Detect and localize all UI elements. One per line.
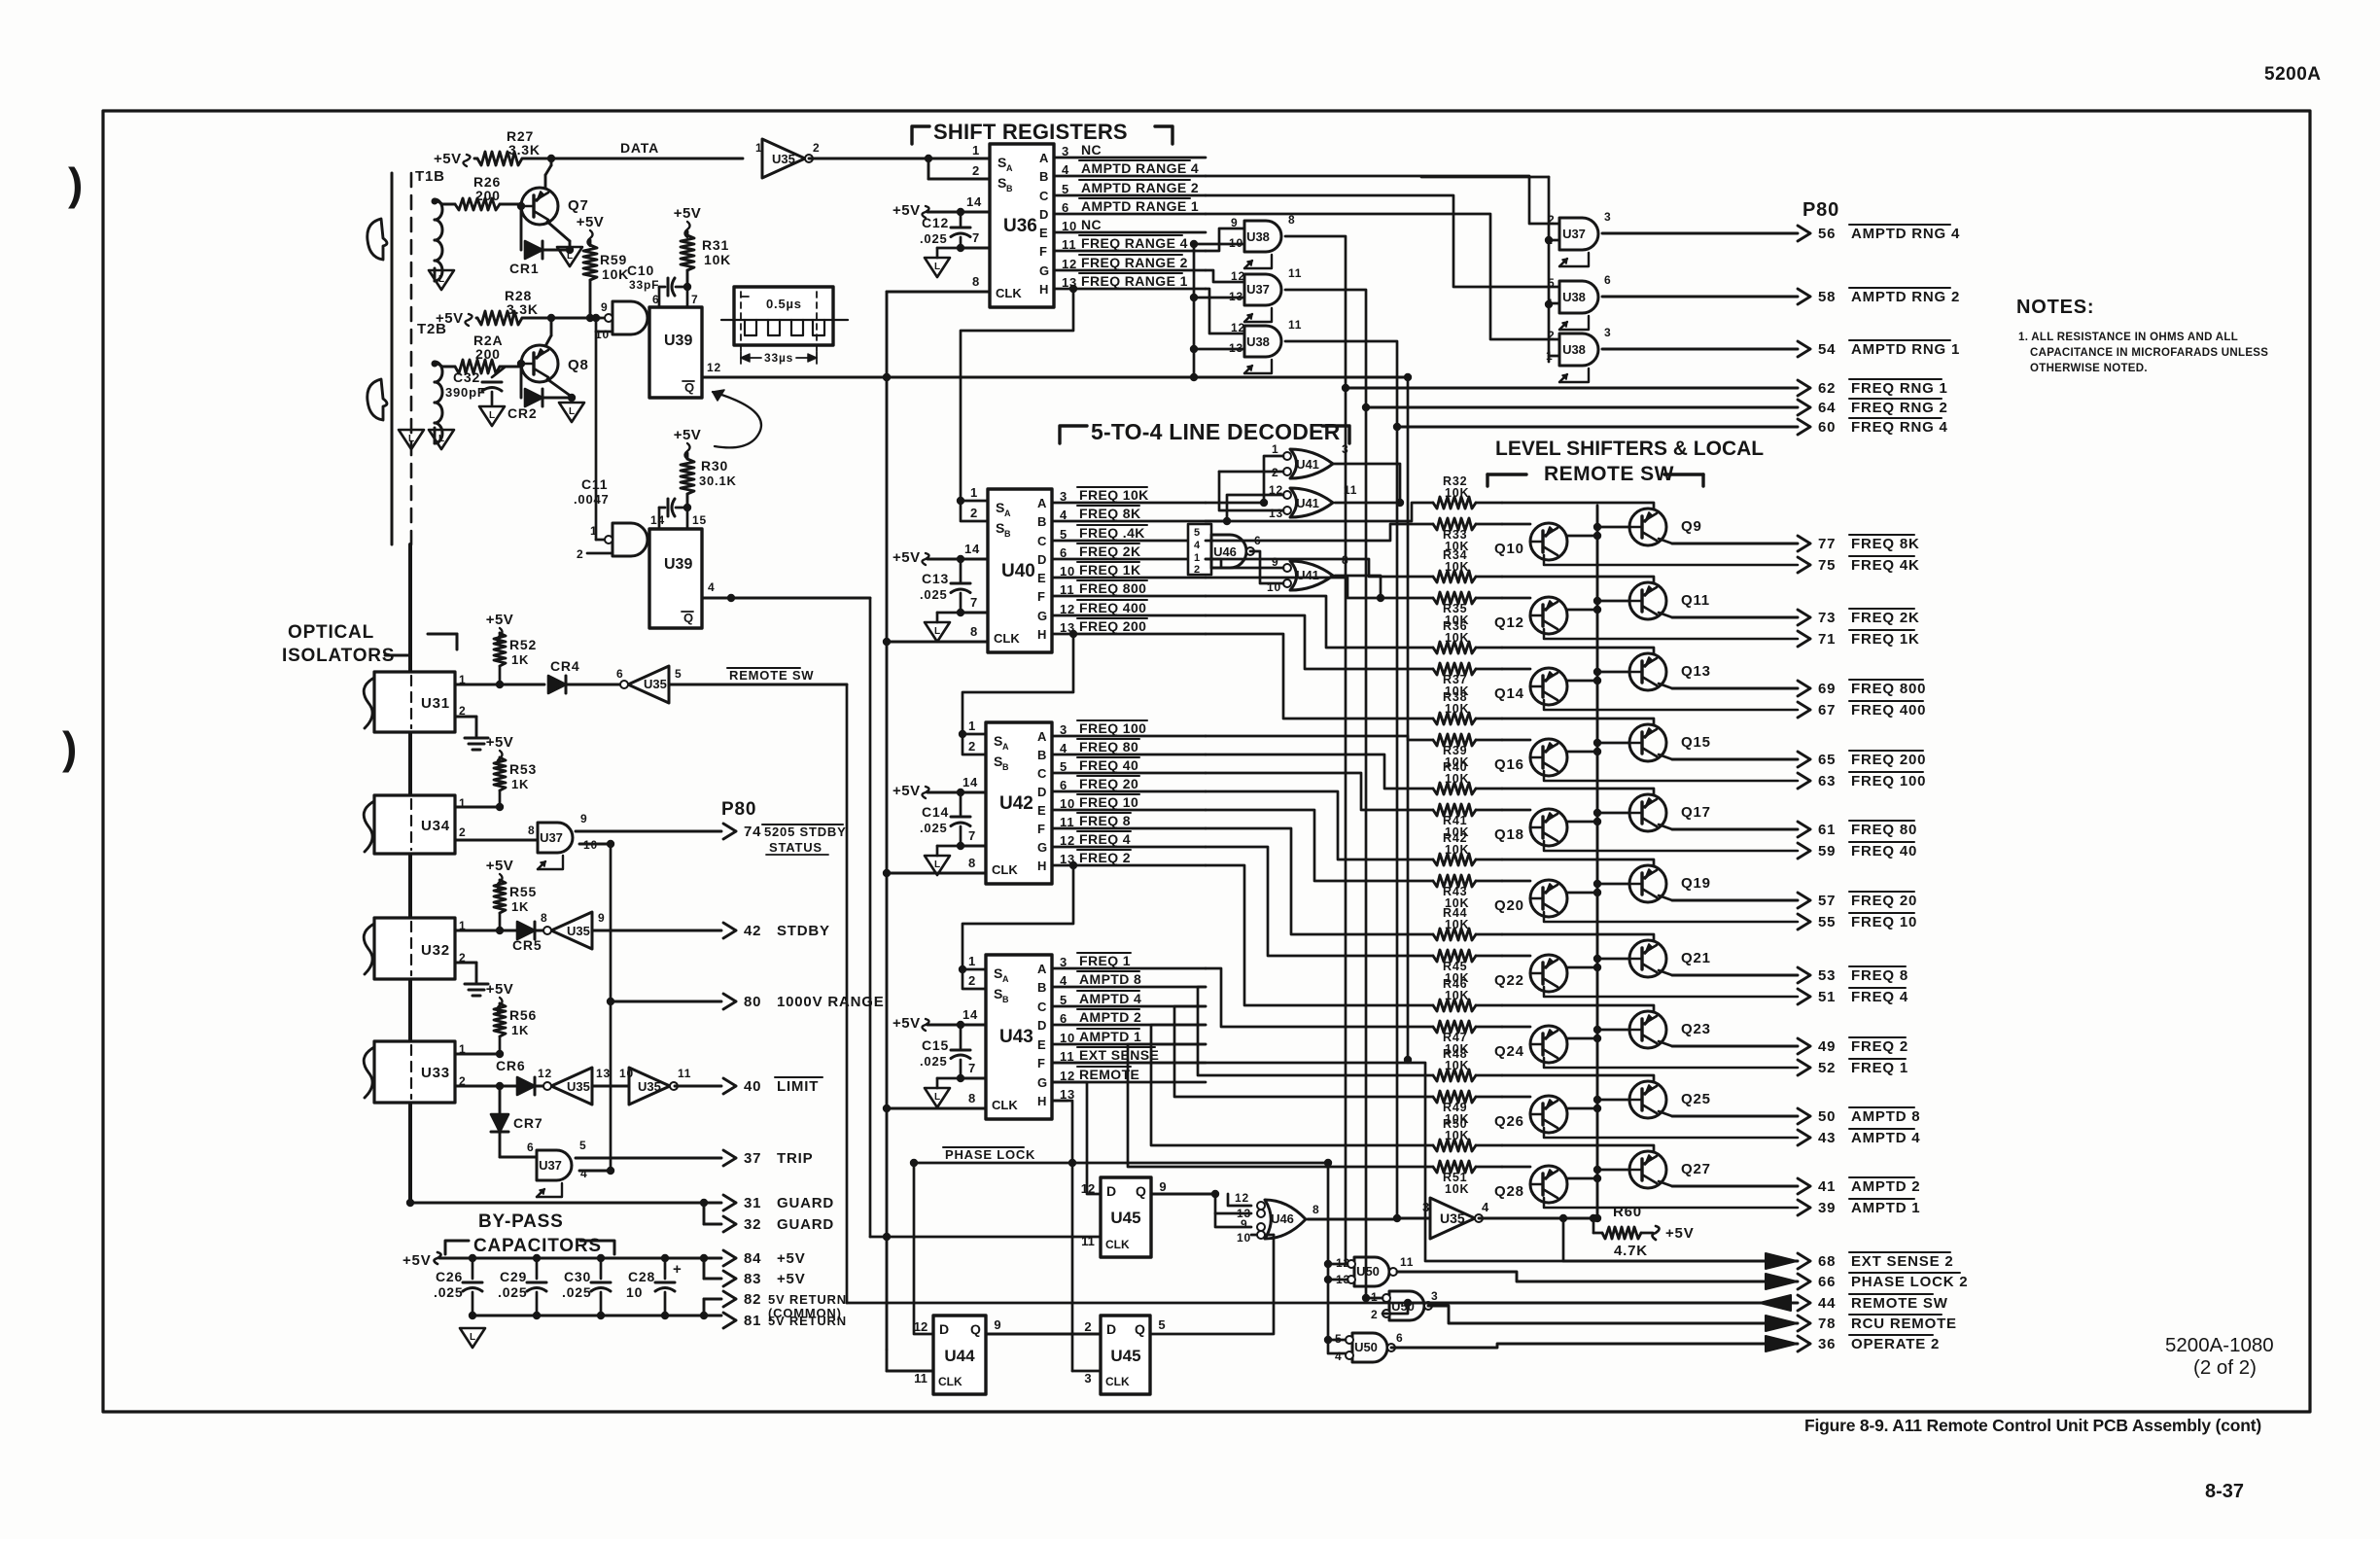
wire	[1502, 1145, 1654, 1152]
wire Q7 emitter	[547, 222, 570, 241]
wire	[1502, 789, 1654, 795]
svg-text:AMPTD RNG 2: AMPTD RNG 2	[1851, 289, 1960, 305]
wire	[1054, 269, 1206, 272]
nand gate U37 freq rng	[1244, 274, 1281, 305]
svg-text:R59: R59	[600, 252, 627, 267]
svg-text:U37: U37	[540, 830, 563, 845]
svg-text:10K: 10K	[1445, 560, 1469, 574]
port 77 FREQ 8K	[1659, 539, 1672, 544]
wire	[927, 1024, 986, 1027]
transistor Q9	[1629, 509, 1666, 545]
wire	[1151, 1025, 1433, 1145]
svg-text:L: L	[470, 1332, 475, 1343]
svg-text:11: 11	[678, 1067, 691, 1080]
svg-text:55: 55	[1818, 914, 1836, 930]
svg-text:Q15: Q15	[1681, 734, 1711, 751]
svg-text:10: 10	[619, 1067, 634, 1080]
transistor Q24	[1530, 1026, 1567, 1063]
svg-text:2: 2	[970, 506, 978, 520]
wire	[1052, 614, 1206, 617]
transistor Q22	[1530, 955, 1567, 992]
svg-text:FREQ 200: FREQ 200	[1851, 752, 1926, 768]
resistor R44	[1433, 929, 1476, 940]
svg-text:H: H	[1037, 859, 1046, 873]
svg-text:PHASE LOCK: PHASE LOCK	[945, 1147, 1035, 1162]
svg-text:2: 2	[577, 547, 583, 561]
resistor R34	[1433, 571, 1476, 582]
wire	[927, 211, 990, 214]
port 73 FREQ 2K	[1659, 613, 1672, 617]
wire	[1206, 578, 1433, 598]
wire	[1150, 1235, 1274, 1334]
svg-text:+5V: +5V	[777, 1271, 806, 1287]
svg-text:FREQ 800: FREQ 800	[1851, 681, 1926, 697]
wire	[1054, 288, 1206, 291]
wire	[1206, 503, 1433, 521]
border frame	[103, 111, 2310, 1412]
svg-text:U40: U40	[1001, 561, 1035, 581]
wire	[914, 1162, 1328, 1165]
inverter U35 limit b	[629, 1068, 670, 1105]
svg-text:REMOTE SW: REMOTE SW	[1544, 463, 1674, 485]
svg-text:1: 1	[1272, 442, 1278, 456]
svg-text:73: 73	[1818, 610, 1836, 626]
wire	[1206, 495, 1283, 521]
svg-text:FREQ 80: FREQ 80	[1851, 822, 1917, 838]
wire Q7 collector	[544, 175, 547, 189]
capacitor C30	[600, 1258, 603, 1279]
svg-text:4: 4	[1335, 1350, 1342, 1363]
svg-text:+5V: +5V	[577, 214, 605, 230]
wire	[809, 158, 990, 160]
wire clk	[887, 641, 988, 644]
svg-text:.025: .025	[920, 1054, 948, 1069]
svg-text:NOTES:: NOTES:	[2016, 297, 2094, 318]
svg-text:AMPTD 2: AMPTD 2	[1079, 1009, 1141, 1025]
svg-text:9: 9	[601, 300, 608, 314]
svg-text:3: 3	[1604, 210, 1611, 224]
wire	[1054, 213, 1206, 216]
svg-text:U42: U42	[999, 793, 1033, 814]
svg-text:12: 12	[538, 1067, 552, 1080]
ground	[460, 1328, 485, 1348]
svg-text:49: 49	[1818, 1038, 1836, 1055]
svg-text:BY-PASS: BY-PASS	[478, 1211, 564, 1232]
wire	[647, 317, 649, 320]
svg-text:2: 2	[968, 973, 976, 988]
port 40 limit	[723, 1078, 736, 1086]
port 78 rcu remote	[1428, 1306, 1798, 1323]
inverter U35 remote sw	[628, 666, 669, 703]
transistor Q11	[1629, 582, 1666, 619]
optocoupler U31	[374, 672, 455, 732]
wire	[1206, 559, 1283, 568]
svg-text:Q: Q	[970, 1321, 981, 1337]
port 39 AMPTD 1	[1544, 1198, 1798, 1208]
svg-text:6: 6	[1604, 273, 1611, 287]
svg-text:E: E	[1037, 1037, 1046, 1052]
ground	[937, 612, 961, 614]
svg-text:Q27: Q27	[1681, 1161, 1711, 1177]
svg-text:U46: U46	[1271, 1211, 1294, 1226]
svg-text:12: 12	[1235, 1191, 1249, 1205]
svg-text:2: 2	[813, 141, 820, 155]
svg-text:11: 11	[914, 1371, 927, 1386]
svg-text:8: 8	[970, 624, 978, 639]
resistor R42	[1433, 854, 1476, 865]
svg-text:FREQ 4: FREQ 4	[1851, 989, 1908, 1005]
svg-text:B: B	[1002, 762, 1009, 772]
svg-text:FREQ 1K: FREQ 1K	[1851, 631, 1920, 648]
svg-text:AMPTD RNG 4: AMPTD RNG 4	[1851, 226, 1960, 242]
wire	[1198, 987, 1433, 1075]
wire	[1549, 302, 1559, 305]
ic U39 one-shot 2	[649, 529, 702, 628]
svg-text:U41: U41	[1296, 457, 1319, 472]
svg-text:2: 2	[459, 825, 466, 839]
wire	[1206, 847, 1433, 956]
wire	[1502, 577, 1654, 583]
svg-text:FREQ 10K: FREQ 10K	[1079, 487, 1149, 503]
svg-text:62: 62	[1818, 380, 1836, 397]
svg-text:.025: .025	[562, 1284, 591, 1300]
wire	[1476, 933, 1502, 936]
transistor Q27	[1629, 1151, 1666, 1188]
wire	[434, 428, 437, 443]
svg-text:+5V: +5V	[892, 549, 921, 566]
svg-text:C: C	[1037, 534, 1047, 548]
wire	[1206, 270, 1244, 282]
resistor R48	[1433, 1070, 1476, 1081]
svg-text:C29: C29	[500, 1269, 527, 1284]
nand gate U50 c	[1352, 1333, 1387, 1362]
wire	[455, 716, 476, 719]
svg-text:54: 54	[1818, 341, 1836, 358]
transistor Q19	[1629, 865, 1666, 902]
svg-text:14: 14	[962, 775, 978, 790]
wire	[1174, 1006, 1433, 1097]
svg-text:66: 66	[1818, 1274, 1836, 1290]
svg-text:L: L	[934, 860, 940, 870]
wire	[1476, 668, 1502, 671]
transistor Q25	[1629, 1081, 1666, 1118]
wire	[1052, 754, 1206, 756]
nand gate U38 amptd rng	[1559, 333, 1598, 366]
svg-text:+5V: +5V	[486, 858, 514, 874]
svg-text:11: 11	[1288, 318, 1302, 332]
svg-text:C30: C30	[564, 1269, 591, 1284]
svg-text:6: 6	[527, 1140, 534, 1154]
wire	[1597, 600, 1629, 603]
svg-text:2: 2	[1371, 1308, 1378, 1321]
svg-text:84: 84	[744, 1250, 761, 1267]
svg-text:E: E	[1037, 571, 1046, 585]
svg-text:10K: 10K	[1445, 1129, 1469, 1142]
nand gate U46	[1188, 524, 1211, 575]
svg-text:F: F	[1037, 589, 1045, 604]
wire	[1328, 1163, 1350, 1353]
svg-text:D: D	[1106, 1183, 1116, 1199]
svg-text:E: E	[1039, 226, 1048, 240]
svg-text:Q24: Q24	[1494, 1043, 1524, 1060]
svg-text:A: A	[1006, 163, 1013, 173]
resistor R36	[1433, 642, 1476, 653]
svg-text:PHASE LOCK 2: PHASE LOCK 2	[1851, 1274, 1968, 1290]
svg-text:L: L	[934, 626, 940, 637]
wire	[1502, 955, 1530, 958]
svg-text:B: B	[1006, 184, 1013, 193]
svg-text:): )	[62, 722, 77, 773]
svg-text:U38: U38	[1562, 342, 1586, 357]
svg-text:33pF: 33pF	[629, 278, 659, 292]
diode CR1	[520, 206, 523, 250]
svg-text:1K: 1K	[511, 652, 529, 667]
shift register U40	[988, 489, 1052, 652]
svg-text:U38: U38	[1246, 229, 1270, 244]
svg-text:AMPTD 4: AMPTD 4	[1851, 1130, 1920, 1146]
pickup electrode bottom	[367, 379, 387, 420]
wire	[1597, 883, 1629, 886]
wire	[1250, 551, 1283, 583]
port 71 FREQ 1K	[1544, 629, 1798, 639]
nand gate U37 trip	[537, 1150, 572, 1180]
resistor R50	[1433, 1140, 1476, 1151]
resistor R40	[1433, 783, 1476, 794]
resistor R45	[1433, 950, 1476, 962]
wire	[1206, 828, 1433, 934]
svg-text:U46: U46	[1213, 544, 1237, 559]
svg-text:FREQ 1: FREQ 1	[1079, 953, 1131, 968]
wire	[1502, 719, 1654, 725]
wire	[1206, 810, 1433, 881]
wire	[1476, 576, 1502, 579]
svg-text:A: A	[1039, 151, 1049, 165]
svg-text:REMOTE: REMOTE	[1079, 1067, 1139, 1082]
svg-text:TRIP: TRIP	[777, 1150, 813, 1167]
nand gate U39 input pins 9 10	[596, 317, 612, 320]
svg-text:B: B	[1039, 169, 1048, 184]
wire	[576, 830, 721, 833]
svg-text:FREQ 100: FREQ 100	[1851, 773, 1926, 790]
wire	[1407, 377, 1410, 1060]
wire	[1335, 502, 1400, 505]
wire	[1333, 464, 1400, 503]
guard bus vertical	[408, 544, 412, 1203]
svg-text:U35: U35	[644, 677, 667, 691]
svg-text:OPERATE 2: OPERATE 2	[1851, 1336, 1940, 1352]
wire	[1476, 880, 1502, 883]
svg-text:U35: U35	[567, 924, 590, 938]
wire	[1476, 809, 1502, 812]
svg-text:U41: U41	[1296, 568, 1319, 582]
svg-text:51: 51	[1818, 989, 1836, 1005]
svg-text:U32: U32	[421, 942, 450, 959]
capacitor C26	[472, 1258, 474, 1279]
svg-text:4.7K: 4.7K	[1614, 1243, 1648, 1259]
svg-text:R31: R31	[702, 237, 729, 253]
wire	[1549, 355, 1559, 358]
svg-text:8: 8	[968, 1091, 976, 1105]
svg-text:75: 75	[1818, 557, 1836, 574]
resistor R51	[1433, 1161, 1476, 1173]
svg-text:CR1: CR1	[509, 261, 539, 276]
svg-text:9: 9	[1241, 1217, 1247, 1231]
wire	[1052, 633, 1206, 636]
svg-text:U38: U38	[1562, 290, 1586, 304]
ground	[937, 1077, 961, 1080]
optocoupler U32	[374, 918, 455, 979]
wire	[1052, 558, 1206, 561]
svg-text:S: S	[996, 520, 1004, 536]
svg-text:EXT SENSE 2: EXT SENSE 2	[1851, 1253, 1954, 1270]
optocoupler U33	[374, 1041, 455, 1103]
svg-text:41: 41	[1818, 1178, 1836, 1195]
svg-text:C13: C13	[922, 571, 949, 586]
wire	[1206, 615, 1433, 669]
nor gate U41 b	[1290, 488, 1333, 517]
svg-text:82: 82	[744, 1291, 761, 1308]
wire clk	[887, 291, 990, 294]
wire	[1228, 1194, 1251, 1206]
svg-text:FREQ 200: FREQ 200	[1079, 618, 1146, 634]
svg-text:FREQ 8K: FREQ 8K	[1079, 506, 1140, 521]
svg-text:+5V: +5V	[1665, 1225, 1695, 1242]
svg-text:A: A	[1037, 729, 1047, 744]
svg-text:Q26: Q26	[1494, 1113, 1524, 1130]
ground	[429, 430, 454, 449]
transistor Q13	[1629, 653, 1666, 690]
nand gate U38 freq rng	[1244, 221, 1281, 252]
svg-text:U43: U43	[999, 1027, 1033, 1047]
wire	[500, 1156, 537, 1159]
svg-text:5200A: 5200A	[2264, 64, 2322, 85]
svg-text:L: L	[934, 1092, 940, 1103]
wire	[1476, 859, 1502, 861]
svg-text:+5V: +5V	[674, 205, 702, 222]
svg-text:Q12: Q12	[1494, 614, 1524, 631]
svg-text:D: D	[1039, 207, 1048, 222]
svg-text:C15: C15	[922, 1037, 949, 1053]
wire	[1052, 772, 1206, 775]
capacitor C28	[664, 1258, 667, 1279]
svg-text:10K: 10K	[1445, 918, 1469, 931]
svg-text:A: A	[1002, 974, 1009, 984]
svg-text:5: 5	[1158, 1317, 1165, 1332]
svg-text:R52: R52	[509, 637, 537, 652]
svg-text:Q14: Q14	[1494, 685, 1524, 702]
svg-text:A: A	[1037, 496, 1047, 510]
svg-text:U34: U34	[421, 818, 450, 834]
svg-text:0.5µs: 0.5µs	[766, 297, 802, 311]
wire	[1194, 243, 1244, 246]
svg-text:FREQ 8K: FREQ 8K	[1851, 536, 1920, 552]
svg-text:Q19: Q19	[1681, 875, 1711, 892]
svg-text:STDBY: STDBY	[777, 923, 830, 939]
wire	[1206, 634, 1433, 719]
wire	[455, 839, 538, 842]
svg-text:13: 13	[1269, 507, 1283, 520]
svg-text:14: 14	[962, 1007, 978, 1022]
svg-text:U37: U37	[539, 1158, 562, 1173]
wire	[1597, 742, 1629, 745]
svg-text:LEVEL SHIFTERS & LOCAL: LEVEL SHIFTERS & LOCAL	[1495, 438, 1764, 460]
wire	[1366, 1297, 1382, 1300]
svg-text:1K: 1K	[511, 1023, 529, 1037]
svg-text:DATA: DATA	[620, 140, 659, 156]
wire	[1476, 788, 1502, 790]
svg-text:2: 2	[972, 163, 980, 178]
transistor Q8	[521, 345, 558, 382]
svg-text:5V RETURN: 5V RETURN	[768, 1314, 847, 1328]
wire	[1421, 176, 1549, 179]
ground	[465, 737, 488, 740]
wire	[1194, 297, 1244, 299]
svg-text:AMPTD RANGE 2: AMPTD RANGE 2	[1081, 180, 1199, 195]
svg-text:10K: 10K	[1445, 631, 1469, 645]
svg-text:Q23: Q23	[1681, 1021, 1711, 1037]
svg-text:FREQ RANGE 4: FREQ RANGE 4	[1081, 235, 1188, 251]
svg-text:CR4: CR4	[550, 658, 579, 674]
flip-flop U45 a	[1101, 1177, 1151, 1257]
svg-text:Q13: Q13	[1681, 663, 1711, 680]
svg-text:ISOLATORS: ISOLATORS	[282, 646, 395, 666]
wire	[1328, 1339, 1346, 1342]
resistor R32	[1433, 497, 1476, 509]
svg-text:T1B: T1B	[415, 168, 445, 185]
wire Q8 collector	[545, 335, 551, 346]
svg-text:14: 14	[650, 513, 665, 527]
svg-text:7: 7	[968, 828, 976, 843]
port 83 +5v	[703, 1258, 706, 1279]
flip-flop U44	[933, 1316, 986, 1394]
svg-text:4: 4	[708, 580, 715, 594]
svg-text:L: L	[438, 274, 444, 285]
svg-text:FREQ 2: FREQ 2	[1851, 1038, 1908, 1055]
wire	[1069, 630, 1077, 638]
svg-text:40: 40	[744, 1078, 761, 1095]
svg-text:7: 7	[970, 595, 978, 610]
nand gate U50 a	[1354, 1257, 1389, 1286]
svg-text:33µs: 33µs	[764, 351, 793, 365]
wire	[1052, 735, 1206, 738]
svg-text:U45: U45	[1110, 1347, 1140, 1365]
ground	[479, 406, 505, 426]
wire	[1052, 790, 1206, 793]
wire	[1219, 472, 1283, 510]
wire	[914, 1163, 933, 1334]
svg-text:4: 4	[1194, 540, 1201, 551]
port 75 FREQ 4K	[1544, 555, 1798, 565]
wire	[1567, 1177, 1597, 1180]
port 49 FREQ 2	[1659, 1041, 1672, 1046]
wire	[435, 199, 442, 204]
wire	[1567, 751, 1597, 754]
svg-text:FREQ 10: FREQ 10	[1851, 914, 1917, 930]
resistor R41	[1433, 804, 1476, 816]
port 36 operate 2	[1391, 1344, 1798, 1348]
svg-text:Q: Q	[684, 380, 694, 395]
svg-text:Q11: Q11	[1681, 592, 1710, 609]
svg-text:U31: U31	[421, 695, 450, 712]
svg-text:1: 1	[972, 143, 980, 158]
wire	[455, 962, 476, 965]
svg-text:+5V: +5V	[434, 151, 462, 167]
wire	[647, 539, 649, 542]
wire DATA	[551, 158, 743, 160]
svg-text:CLK: CLK	[938, 1375, 962, 1388]
svg-text:+5V: +5V	[892, 1015, 921, 1032]
svg-text:44: 44	[1818, 1295, 1836, 1312]
